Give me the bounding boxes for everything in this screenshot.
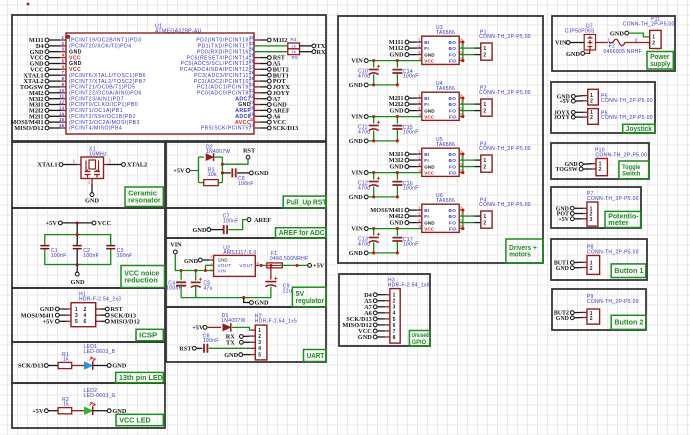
svg-text:0466005 NRHF: 0466005 NRHF <box>604 49 643 55</box>
svg-text:2: 2 <box>418 155 421 160</box>
svg-text:100nF: 100nF <box>223 218 239 224</box>
svg-text:1k: 1k <box>291 43 296 48</box>
svg-text:CJP50P06S: CJP50P06S <box>565 29 595 35</box>
svg-text:regulator: regulator <box>296 298 325 305</box>
svg-text:BI: BI <box>424 208 429 213</box>
svg-text:GND: GND <box>424 108 435 113</box>
svg-text:FO: FO <box>449 226 456 231</box>
svg-text:5: 5 <box>75 319 78 325</box>
svg-text:RST: RST <box>179 346 192 353</box>
svg-text:TX: TX <box>226 339 235 346</box>
svg-text:GND: GND <box>85 198 99 205</box>
svg-text:GND: GND <box>224 352 238 359</box>
svg-text:2: 2 <box>258 334 261 340</box>
svg-text:GND: GND <box>610 31 624 38</box>
svg-text:22: 22 <box>249 94 255 99</box>
svg-text:2: 2 <box>590 266 593 272</box>
svg-text:32: 32 <box>249 35 255 40</box>
svg-text:100nF: 100nF <box>51 253 67 259</box>
svg-text:6: 6 <box>84 319 87 325</box>
svg-text:100nF: 100nF <box>166 285 182 291</box>
svg-text:GND: GND <box>349 194 363 201</box>
svg-text:resonator: resonator <box>128 197 161 204</box>
svg-text:2: 2 <box>483 165 486 171</box>
svg-text:BO: BO <box>449 152 457 157</box>
svg-text:TA6586: TA6586 <box>436 142 455 148</box>
svg-text:23: 23 <box>249 88 255 93</box>
svg-text:MISO/D12: MISO/D12 <box>111 318 140 325</box>
svg-text:meter: meter <box>608 220 629 227</box>
svg-text:LED-0603_G: LED-0603_G <box>84 393 116 399</box>
svg-text:VIN: VIN <box>351 170 363 177</box>
svg-text:GND: GND <box>112 363 126 370</box>
svg-text:LED-0603_B: LED-0603_B <box>84 349 116 355</box>
svg-text:VCC: VCC <box>424 58 435 63</box>
svg-text:FI: FI <box>424 214 429 219</box>
svg-text:GND: GND <box>349 138 363 145</box>
svg-text:CONN-TH_2P-P5.00: CONN-TH_2P-P5.00 <box>601 115 653 121</box>
svg-text:100nF: 100nF <box>117 253 133 259</box>
svg-text:BO: BO <box>449 40 457 45</box>
svg-text:4: 4 <box>84 313 87 319</box>
svg-text:3: 3 <box>418 106 421 111</box>
svg-text:VOUT: VOUT <box>218 263 232 268</box>
svg-text:1: 1 <box>75 307 78 313</box>
svg-text:HDR-F-2.54_1x5: HDR-F-2.54_1x5 <box>255 318 297 324</box>
svg-text:CONN-TH_2P-P5.00: CONN-TH_2P-P5.00 <box>479 34 531 40</box>
svg-text:GND: GND <box>424 220 435 225</box>
svg-text:3: 3 <box>75 313 78 319</box>
svg-text:+5V: +5V <box>173 168 185 175</box>
svg-text:16: 16 <box>59 123 65 128</box>
svg-text:RX: RX <box>317 49 327 56</box>
svg-text:2: 2 <box>483 53 486 59</box>
svg-text:BO: BO <box>449 96 457 101</box>
svg-text:UART: UART <box>307 351 325 360</box>
svg-text:2: 2 <box>84 307 87 313</box>
svg-text:12: 12 <box>59 100 65 105</box>
svg-text:1: 1 <box>418 149 421 154</box>
svg-text:24: 24 <box>249 82 255 87</box>
svg-text:15: 15 <box>59 117 65 122</box>
svg-text:11: 11 <box>59 94 64 99</box>
svg-text:+5V: +5V <box>313 263 325 270</box>
svg-text:Joystick: Joystick <box>626 126 652 133</box>
svg-text:CONN-TH_2P-P5.00: CONN-TH_2P-P5.00 <box>479 90 531 96</box>
svg-text:CONN-TH_2P-P5.00: CONN-TH_2P-P5.00 <box>595 152 647 158</box>
svg-text:3: 3 <box>418 218 421 223</box>
svg-text:VIN: VIN <box>170 242 182 249</box>
svg-text:GND: GND <box>255 300 269 307</box>
svg-text:1k: 1k <box>291 49 296 54</box>
svg-text:100nF: 100nF <box>83 253 99 259</box>
svg-text:VIN: VIN <box>351 114 363 121</box>
svg-text:VIN: VIN <box>555 40 567 47</box>
svg-text:1: 1 <box>62 35 65 40</box>
svg-text:2: 2 <box>62 41 65 46</box>
svg-text:10: 10 <box>59 88 65 93</box>
svg-text:M1I2: M1I2 <box>273 37 288 44</box>
svg-text:8: 8 <box>62 76 65 81</box>
svg-text:CONN-TH_2P-P5.00: CONN-TH_2P-P5.00 <box>479 202 531 208</box>
svg-text:10k: 10k <box>208 172 217 178</box>
svg-text:BI: BI <box>424 40 429 45</box>
svg-text:1: 1 <box>483 102 486 108</box>
svg-text:GND: GND <box>424 52 435 57</box>
svg-text:CONN-TH_2P-P5.00: CONN-TH_2P-P5.00 <box>623 22 675 28</box>
svg-text:AREF for ADC: AREF for ADC <box>279 228 325 237</box>
svg-text:R5: R5 <box>292 55 299 60</box>
svg-text:1k: 1k <box>63 356 69 362</box>
svg-text:VCC: VCC <box>424 114 435 119</box>
svg-text:GND: GND <box>424 164 435 169</box>
svg-text:VIN: VIN <box>351 58 363 65</box>
svg-text:+5V: +5V <box>43 318 55 325</box>
svg-text:100nF: 100nF <box>403 186 419 192</box>
svg-text:470u: 470u <box>358 73 370 79</box>
svg-text:1k: 1k <box>63 401 69 407</box>
svg-text:R4: R4 <box>290 37 297 42</box>
svg-text:100nF: 100nF <box>403 130 419 136</box>
svg-text:13: 13 <box>59 105 65 110</box>
svg-text:2: 2 <box>590 99 593 105</box>
svg-text:3: 3 <box>418 162 421 167</box>
svg-text:GND: GND <box>349 82 363 89</box>
svg-text:1: 1 <box>418 93 421 98</box>
svg-text:PB5(SCK/PCINT5): PB5(SCK/PCINT5) <box>201 126 251 132</box>
svg-text:RST: RST <box>243 148 256 155</box>
svg-text:1: 1 <box>608 38 611 43</box>
svg-text:1: 1 <box>418 37 421 42</box>
svg-text:VCC LED: VCC LED <box>119 415 151 424</box>
svg-text:TA6586: TA6586 <box>436 30 455 36</box>
svg-text:VIN: VIN <box>218 268 227 273</box>
svg-text:VCC: VCC <box>424 170 435 175</box>
svg-text:Button 2: Button 2 <box>614 318 643 327</box>
svg-text:3: 3 <box>590 217 593 223</box>
svg-text:TOGSW: TOGSW <box>556 167 578 173</box>
svg-text:ICSP: ICSP <box>139 330 157 339</box>
svg-text:3: 3 <box>62 47 65 52</box>
svg-text:GND: GND <box>193 227 207 234</box>
svg-text:FI: FI <box>424 102 429 107</box>
svg-text:+5V: +5V <box>192 325 204 332</box>
svg-text:GND: GND <box>556 316 569 322</box>
svg-text:470u: 470u <box>358 241 370 247</box>
svg-text:reduction: reduction <box>124 276 158 285</box>
svg-text:47u: 47u <box>203 285 212 291</box>
svg-text:GPIO: GPIO <box>412 339 427 346</box>
svg-text:GND: GND <box>390 52 404 59</box>
svg-text:FO: FO <box>449 170 456 175</box>
svg-text:7: 7 <box>62 70 65 75</box>
svg-text:BO: BO <box>449 158 457 163</box>
svg-text:FI: FI <box>424 158 429 163</box>
svg-text:2: 2 <box>418 211 421 216</box>
svg-text:Button 1: Button 1 <box>614 266 643 275</box>
svg-text:14: 14 <box>59 111 65 116</box>
svg-text:GND: GND <box>349 250 363 257</box>
svg-text:MISO/D12: MISO/D12 <box>14 125 43 132</box>
svg-text:100nF: 100nF <box>238 181 254 187</box>
svg-text:GND: GND <box>390 220 404 227</box>
svg-text:28: 28 <box>249 59 255 64</box>
svg-text:FO: FO <box>449 220 456 225</box>
svg-text:30: 30 <box>249 47 255 52</box>
svg-text:1: 1 <box>483 158 486 164</box>
svg-text:VIN: VIN <box>351 226 363 233</box>
svg-text:17: 17 <box>249 123 255 128</box>
svg-text:26: 26 <box>249 70 255 75</box>
svg-text:FO: FO <box>449 108 456 113</box>
svg-text:GND: GND <box>390 164 404 171</box>
svg-text:HDR-F-2.54_2x3: HDR-F-2.54_2x3 <box>79 296 121 302</box>
svg-text:(PCINT4/MISO)PB4: (PCINT4/MISO)PB4 <box>69 126 122 132</box>
svg-text:20: 20 <box>249 105 255 110</box>
svg-text:+5V: +5V <box>32 408 44 415</box>
svg-text:CONN-TH_2P-P5.00: CONN-TH_2P-P5.00 <box>587 249 639 255</box>
svg-text:100nF: 100nF <box>403 74 419 80</box>
svg-text:GND: GND <box>358 334 372 341</box>
svg-text:5: 5 <box>62 59 65 64</box>
svg-text:0466.500NRHF: 0466.500NRHF <box>270 256 309 262</box>
svg-text:GND: GND <box>566 51 580 58</box>
svg-text:2: 2 <box>652 41 655 47</box>
svg-text:XTAL2: XTAL2 <box>127 162 147 169</box>
svg-text:1: 1 <box>418 205 421 210</box>
svg-text:470u: 470u <box>358 185 370 191</box>
svg-text:TA6586: TA6586 <box>436 86 455 92</box>
svg-text:2: 2 <box>635 38 638 43</box>
svg-text:5: 5 <box>258 353 261 359</box>
svg-text:Switch: Switch <box>622 171 640 178</box>
svg-text:+5V: +5V <box>558 217 569 223</box>
svg-text:FI: FI <box>424 46 429 51</box>
svg-text:VCC: VCC <box>424 226 435 231</box>
svg-text:BO: BO <box>449 46 457 51</box>
svg-text:25: 25 <box>249 76 255 81</box>
svg-text:29: 29 <box>249 53 255 58</box>
svg-text:+5V: +5V <box>559 99 570 105</box>
svg-text:supply: supply <box>650 61 670 68</box>
svg-text:2: 2 <box>483 221 486 227</box>
svg-text:VCC: VCC <box>98 220 112 227</box>
svg-text:BI: BI <box>424 96 429 101</box>
svg-text:21: 21 <box>249 100 255 105</box>
svg-text:2: 2 <box>590 316 593 322</box>
svg-text:BO: BO <box>449 102 457 107</box>
svg-text:2: 2 <box>418 99 421 104</box>
svg-text:AREF: AREF <box>254 217 271 224</box>
svg-text:GND: GND <box>255 170 269 177</box>
svg-text:GND: GND <box>218 257 229 262</box>
svg-text:GND: GND <box>184 258 198 265</box>
svg-text:2: 2 <box>418 43 421 48</box>
svg-text:1: 1 <box>483 46 486 52</box>
svg-text:FO: FO <box>449 114 456 119</box>
svg-text:2: 2 <box>483 109 486 115</box>
svg-text:VOUT: VOUT <box>239 263 253 268</box>
svg-text:31: 31 <box>249 41 255 46</box>
svg-text:SCK/D13: SCK/D13 <box>18 363 44 370</box>
svg-text:19: 19 <box>249 111 255 116</box>
svg-text:1N4007W: 1N4007W <box>206 149 230 155</box>
svg-text:motors: motors <box>509 252 531 259</box>
svg-text:TA6586: TA6586 <box>436 198 455 204</box>
svg-text:HDR-F-2.54_1x8: HDR-F-2.54_1x8 <box>388 282 430 288</box>
svg-text:9: 9 <box>62 82 65 87</box>
svg-text:CONN-TH_2P-P5.00: CONN-TH_2P-P5.00 <box>479 146 531 152</box>
svg-text:470u: 470u <box>358 129 370 135</box>
svg-text:FO: FO <box>449 52 456 57</box>
svg-text:100nF: 100nF <box>403 242 419 248</box>
svg-text:FO: FO <box>449 58 456 63</box>
svg-text:CONN-TH_2P-P5.00: CONN-TH_2P-P5.00 <box>587 299 639 305</box>
svg-text:8: 8 <box>393 335 396 341</box>
svg-text:+5V: +5V <box>46 220 58 227</box>
svg-text:18: 18 <box>250 117 255 122</box>
svg-text:Pull_Up RST: Pull_Up RST <box>286 197 327 206</box>
svg-text:27: 27 <box>249 64 255 69</box>
svg-text:FO: FO <box>449 164 456 169</box>
svg-text:GND: GND <box>390 108 404 115</box>
svg-text:100nF: 100nF <box>203 338 219 344</box>
svg-text:BO: BO <box>449 214 457 219</box>
svg-text:1N4007W: 1N4007W <box>221 318 245 324</box>
svg-text:3: 3 <box>418 50 421 55</box>
svg-text:SCK/D13: SCK/D13 <box>273 125 299 132</box>
svg-text:CONN-TH_2P-P5.00: CONN-TH_2P-P5.00 <box>601 98 653 104</box>
svg-text:GND: GND <box>556 266 569 272</box>
svg-text:4: 4 <box>258 346 261 352</box>
svg-text:13th pin LED: 13th pin LED <box>119 373 163 382</box>
svg-text:1: 1 <box>483 214 486 220</box>
svg-text:22u: 22u <box>283 288 292 294</box>
svg-text:BO: BO <box>449 208 457 213</box>
svg-text:JOYY: JOYY <box>554 115 571 121</box>
svg-text:GND: GND <box>71 279 85 286</box>
svg-text:2: 2 <box>599 167 602 173</box>
svg-text:2: 2 <box>590 115 593 121</box>
svg-text:XTAL1: XTAL1 <box>37 162 57 169</box>
svg-text:BI: BI <box>424 152 429 157</box>
svg-text:CONN-TH_3P-P5.00: CONN-TH_3P-P5.00 <box>587 196 639 202</box>
